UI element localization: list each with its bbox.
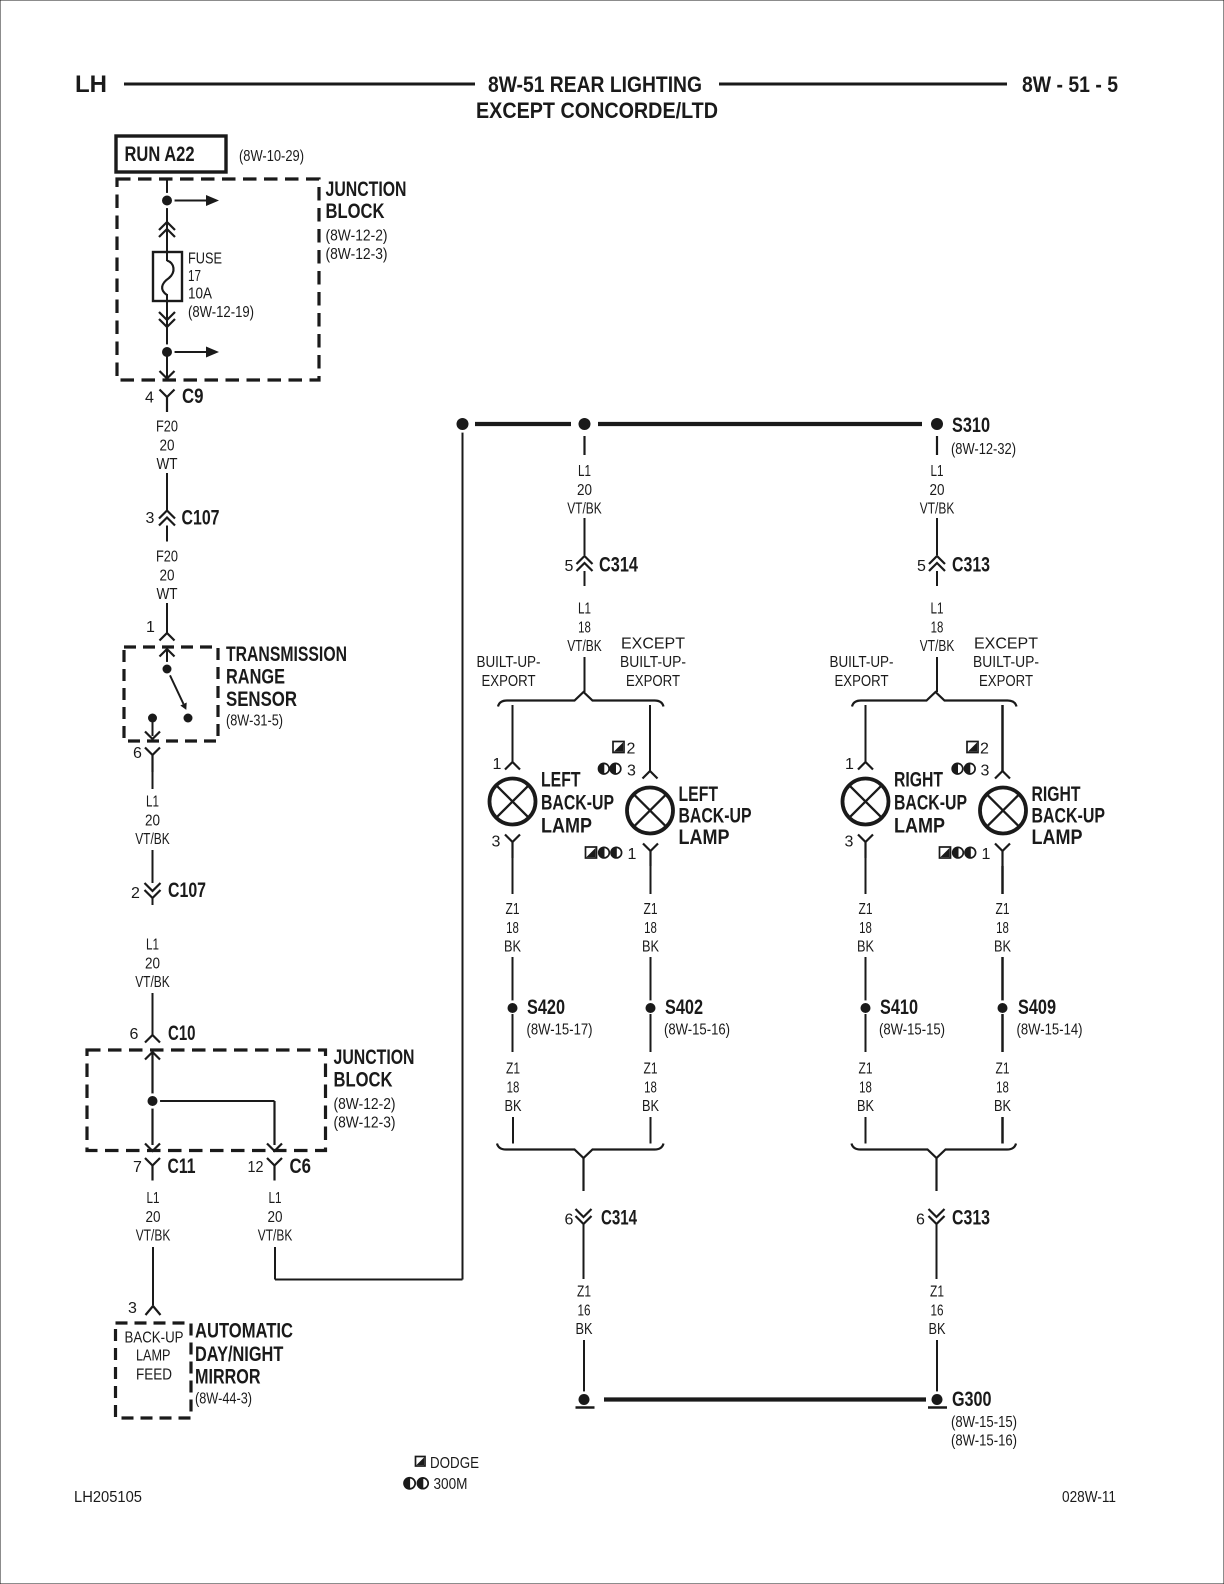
wire to C314 xyxy=(584,518,586,555)
svg-text:VT/BK: VT/BK xyxy=(136,1228,171,1245)
svg-text:Z1: Z1 xyxy=(859,1061,873,1078)
svg-text:BLOCK: BLOCK xyxy=(326,200,385,223)
svg-text:BLOCK: BLOCK xyxy=(334,1069,393,1092)
svg-text:RIGHT: RIGHT xyxy=(894,769,943,792)
marker row pin 1 xyxy=(586,847,597,858)
wire bus to L1 label middle xyxy=(583,436,585,455)
wire brace to C314 pin 6 xyxy=(582,1158,584,1191)
svg-text:FEED: FEED xyxy=(136,1367,172,1384)
header rule left xyxy=(124,83,475,86)
lamp 2 pin right xyxy=(995,771,1010,779)
switch arm xyxy=(167,669,184,704)
svg-text:RIGHT: RIGHT xyxy=(1032,783,1081,806)
wire C313 to Z1 label xyxy=(936,1232,938,1279)
svg-text:Z1: Z1 xyxy=(506,901,520,918)
svg-text:S310: S310 xyxy=(952,414,990,437)
svg-text:BK: BK xyxy=(576,1321,593,1338)
svg-text:SENSOR: SENSOR xyxy=(226,688,297,711)
svg-text:WT: WT xyxy=(157,456,178,473)
svg-text:3: 3 xyxy=(981,763,990,780)
svg-text:3: 3 xyxy=(128,1300,137,1317)
junction block 1 dashed outline xyxy=(117,179,319,380)
automatic day/night mirror dashed outline xyxy=(116,1323,192,1418)
wire C9 to C107 xyxy=(166,473,168,510)
junction block 2 main wire xyxy=(151,1052,153,1145)
bus node S310 xyxy=(928,415,945,432)
wire into bottom brace right 2 xyxy=(1001,1117,1004,1144)
svg-text:EXCEPT CONCORDE/LTD: EXCEPT CONCORDE/LTD xyxy=(476,98,718,123)
svg-text:1: 1 xyxy=(493,756,502,773)
svg-text:12: 12 xyxy=(248,1159,264,1176)
svg-text:BUILT-UP-: BUILT-UP- xyxy=(973,654,1039,671)
left back-up lamp (except built-up-export) xyxy=(627,788,673,834)
svg-text:18: 18 xyxy=(931,619,944,636)
switch contact node left xyxy=(145,711,159,725)
wire into brace left xyxy=(584,657,586,692)
svg-text:LEFT: LEFT xyxy=(679,783,719,806)
svg-text:C11: C11 xyxy=(168,1155,196,1178)
svg-text:AUTOMATIC: AUTOMATIC xyxy=(195,1320,293,1343)
svg-text:18: 18 xyxy=(996,1079,1009,1096)
merge brace right pair xyxy=(852,1144,1017,1159)
svg-text:VT/BK: VT/BK xyxy=(567,501,602,518)
svg-text:(8W-44-3): (8W-44-3) xyxy=(195,1391,252,1408)
svg-text:(8W-10-29): (8W-10-29) xyxy=(239,148,304,165)
svg-text:(8W-15-15): (8W-15-15) xyxy=(951,1414,1017,1431)
merge brace left pair xyxy=(497,1144,664,1159)
svg-text:JUNCTION: JUNCTION xyxy=(334,1046,415,1069)
svg-text:18: 18 xyxy=(859,920,872,937)
svg-text:8W-51 REAR LIGHTING: 8W-51 REAR LIGHTING xyxy=(488,72,702,97)
sensor exit wire xyxy=(152,718,154,736)
wire to ground G300 left xyxy=(583,1340,585,1394)
wire to left back-up lamp pin 1 xyxy=(512,705,514,762)
wire C11 to mirror xyxy=(152,1247,154,1305)
svg-text:LH205105: LH205105 xyxy=(74,1489,142,1506)
connector double chevron below fuse xyxy=(159,312,175,320)
svg-text:BUILT-UP-: BUILT-UP- xyxy=(477,654,541,671)
svg-text:L1: L1 xyxy=(931,463,944,480)
svg-text:LAMP: LAMP xyxy=(1032,826,1083,849)
svg-text:DODGE: DODGE xyxy=(430,1455,479,1472)
svg-text:2: 2 xyxy=(627,741,636,758)
svg-text:VT/BK: VT/BK xyxy=(135,974,170,991)
svg-text:6: 6 xyxy=(130,1026,139,1043)
svg-text:JUNCTION: JUNCTION xyxy=(326,178,407,201)
svg-text:WT: WT xyxy=(157,586,178,603)
svg-text:BACK-UP: BACK-UP xyxy=(894,792,967,815)
branch arrow lower xyxy=(167,351,207,353)
wire to right back-up lamp pin 1 xyxy=(865,705,867,762)
wire to block exit xyxy=(166,352,168,377)
svg-text:L1: L1 xyxy=(578,601,591,618)
wire into bottom brace right xyxy=(865,1117,867,1144)
svg-text:C314: C314 xyxy=(601,1207,637,1230)
svg-text:(8W-12-2): (8W-12-2) xyxy=(326,228,388,245)
svg-text:2: 2 xyxy=(131,885,140,902)
svg-text:BACK-UP: BACK-UP xyxy=(541,792,614,815)
svg-text:LAMP: LAMP xyxy=(679,826,730,849)
svg-text:(8W-31-5): (8W-31-5) xyxy=(226,713,283,730)
svg-text:LH: LH xyxy=(75,71,107,98)
svg-text:L1: L1 xyxy=(147,1190,160,1207)
wire to splice S420 xyxy=(512,957,514,1002)
junction block 2 entry arrow xyxy=(145,1052,160,1060)
svg-text:C107: C107 xyxy=(168,879,206,902)
legend 300m marker xyxy=(404,1478,415,1489)
header rule right xyxy=(719,83,1007,86)
svg-text:18: 18 xyxy=(644,920,657,937)
junction node upper xyxy=(159,193,174,208)
svg-text:LAMP: LAMP xyxy=(894,815,945,838)
junction block 2 exit arrow left xyxy=(145,1144,160,1152)
wire lamp 2 down xyxy=(650,866,652,894)
svg-text:(8W-12-2): (8W-12-2) xyxy=(334,1096,396,1113)
lamp 2 pin xyxy=(643,771,658,779)
svg-text:16: 16 xyxy=(578,1302,591,1319)
svg-text:20: 20 xyxy=(160,567,175,584)
svg-text:18: 18 xyxy=(578,619,591,636)
svg-text:L1: L1 xyxy=(931,601,944,618)
svg-text:(8W-15-14): (8W-15-14) xyxy=(1017,1022,1083,1039)
svg-text:16: 16 xyxy=(931,1302,944,1319)
svg-text:C313: C313 xyxy=(952,554,990,577)
svg-text:BK: BK xyxy=(642,1098,659,1115)
svg-text:LAMP: LAMP xyxy=(541,815,592,838)
svg-text:1: 1 xyxy=(845,756,854,773)
branch brace right pair xyxy=(852,692,1017,707)
wire brace to C313 pin 6 xyxy=(935,1158,937,1191)
wire to splice S410 xyxy=(865,957,867,1002)
svg-text:7: 7 xyxy=(133,1159,142,1176)
wire C6 run to riser xyxy=(275,1279,463,1281)
splice S420 node xyxy=(505,1000,520,1015)
svg-text:EXPORT: EXPORT xyxy=(835,673,889,690)
wire to right back-up lamp 2 xyxy=(1001,705,1004,771)
svg-text:Z1: Z1 xyxy=(577,1284,591,1301)
svg-text:(8W-12-32): (8W-12-32) xyxy=(951,441,1016,458)
svg-text:BK: BK xyxy=(994,1098,1011,1115)
marker row pin 1 right xyxy=(940,847,951,858)
bus node middle xyxy=(576,415,593,432)
svg-text:LEFT: LEFT xyxy=(541,769,581,792)
svg-text:BACK-UP: BACK-UP xyxy=(1032,805,1106,828)
svg-text:20: 20 xyxy=(146,1209,161,1226)
svg-text:18: 18 xyxy=(506,920,519,937)
svg-text:L1: L1 xyxy=(269,1190,282,1207)
transmission range sensor dashed outline xyxy=(124,647,218,741)
svg-text:VT/BK: VT/BK xyxy=(135,831,170,848)
wire bus to L1 label right xyxy=(936,436,938,455)
svg-text:EXCEPT: EXCEPT xyxy=(974,635,1038,652)
svg-text:EXPORT: EXPORT xyxy=(482,673,536,690)
svg-text:BACK-UP: BACK-UP xyxy=(679,805,752,828)
svg-text:Z1: Z1 xyxy=(859,901,873,918)
svg-text:3: 3 xyxy=(845,834,854,851)
svg-text:20: 20 xyxy=(268,1209,283,1226)
svg-text:G300: G300 xyxy=(952,1388,992,1411)
svg-text:18: 18 xyxy=(996,920,1009,937)
wire to C107 pin 2 xyxy=(152,850,154,883)
ground bus xyxy=(604,1397,926,1401)
svg-text:FUSE: FUSE xyxy=(188,251,222,268)
svg-text:(8W-12-3): (8W-12-3) xyxy=(326,246,388,263)
svg-text:VT/BK: VT/BK xyxy=(567,638,602,655)
svg-text:(8W-15-17): (8W-15-17) xyxy=(527,1022,593,1039)
exit arrow down xyxy=(160,371,175,379)
svg-text:6: 6 xyxy=(916,1212,925,1229)
lamp 2 pin 1 lower xyxy=(643,844,658,852)
svg-text:BUILT-UP-: BUILT-UP- xyxy=(830,654,894,671)
svg-text:6: 6 xyxy=(133,745,142,762)
svg-text:BK: BK xyxy=(505,1098,522,1115)
svg-text:5: 5 xyxy=(917,558,926,575)
svg-text:(8W-15-16): (8W-15-16) xyxy=(951,1433,1017,1450)
svg-text:028W-11: 028W-11 xyxy=(1062,1489,1116,1506)
svg-text:8W - 51 - 5: 8W - 51 - 5 xyxy=(1022,72,1118,97)
svg-text:18: 18 xyxy=(507,1079,520,1096)
fuse 17 10A body xyxy=(153,252,182,301)
branch brace left pair xyxy=(498,692,664,707)
svg-text:(8W-12-19): (8W-12-19) xyxy=(188,304,254,321)
svg-text:LAMP: LAMP xyxy=(136,1348,171,1365)
wire from RUN A22 into junction block xyxy=(166,179,168,200)
wire below S409 xyxy=(1001,1014,1004,1052)
svg-text:20: 20 xyxy=(145,812,160,829)
junction node lower xyxy=(159,344,174,359)
svg-text:BACK-UP: BACK-UP xyxy=(125,1330,184,1347)
svg-text:1: 1 xyxy=(982,846,991,863)
svg-text:VT/BK: VT/BK xyxy=(920,638,955,655)
svg-text:Z1: Z1 xyxy=(644,901,658,918)
svg-text:F20: F20 xyxy=(156,549,178,566)
splice S410 node xyxy=(858,1000,873,1015)
right back-up lamp (built-up-export) xyxy=(843,779,889,825)
svg-text:17: 17 xyxy=(188,268,201,285)
ground node G300 xyxy=(929,1391,945,1407)
wire riser to splice bus xyxy=(462,424,464,1280)
svg-text:S402: S402 xyxy=(665,996,703,1019)
svg-text:BUILT-UP-: BUILT-UP- xyxy=(620,654,686,671)
svg-text:3: 3 xyxy=(627,763,636,780)
svg-text:BK: BK xyxy=(857,939,874,956)
svg-text:Z1: Z1 xyxy=(930,1284,944,1301)
splice bus S310 xyxy=(475,422,571,426)
svg-text:RUN A22: RUN A22 xyxy=(125,143,195,166)
svg-text:C313: C313 xyxy=(952,1207,990,1230)
wire below S410 xyxy=(865,1014,867,1052)
svg-text:F20: F20 xyxy=(156,419,178,436)
svg-text:18: 18 xyxy=(859,1079,872,1096)
svg-text:Z1: Z1 xyxy=(506,1061,520,1078)
wire into brace right xyxy=(936,657,938,692)
marker dodge pin 2 xyxy=(613,742,624,753)
svg-text:S409: S409 xyxy=(1018,996,1056,1019)
ground node left xyxy=(576,1391,592,1407)
svg-text:EXPORT: EXPORT xyxy=(626,673,680,690)
svg-text:3: 3 xyxy=(492,834,501,851)
svg-text:TRANSMISSION: TRANSMISSION xyxy=(226,643,347,666)
wire C107 to transmission range sensor xyxy=(166,603,168,633)
wire to splice S409 xyxy=(1001,957,1004,1002)
svg-text:BK: BK xyxy=(994,939,1011,956)
svg-text:(8W-15-16): (8W-15-16) xyxy=(664,1022,730,1039)
svg-text:18: 18 xyxy=(644,1079,657,1096)
svg-text:BK: BK xyxy=(857,1098,874,1115)
junction block 2 branch wire xyxy=(153,1100,275,1102)
svg-text:RANGE: RANGE xyxy=(226,666,285,689)
svg-text:BK: BK xyxy=(642,939,659,956)
svg-text:2: 2 xyxy=(980,741,989,758)
svg-text:C107: C107 xyxy=(182,507,220,530)
wire junction dot to fuse xyxy=(166,200,168,261)
svg-text:MIRROR: MIRROR xyxy=(195,1366,261,1389)
splice S409 node xyxy=(995,1000,1010,1015)
wire lamp to Z1 right xyxy=(865,858,867,894)
svg-text:6: 6 xyxy=(565,1212,574,1229)
svg-text:5: 5 xyxy=(565,558,574,575)
bus node left xyxy=(454,415,471,432)
svg-text:L1: L1 xyxy=(578,463,591,480)
svg-text:1: 1 xyxy=(146,619,155,636)
wire C314 to Z1 label xyxy=(583,1232,585,1279)
wire to splice S402 xyxy=(650,957,652,1002)
svg-text:C6: C6 xyxy=(290,1155,312,1178)
right back-up lamp (except built-up-export) xyxy=(980,788,1026,834)
svg-text:Z1: Z1 xyxy=(996,901,1010,918)
svg-text:4: 4 xyxy=(145,390,154,407)
svg-text:BK: BK xyxy=(929,1321,946,1338)
svg-text:20: 20 xyxy=(145,955,160,972)
svg-text:20: 20 xyxy=(577,482,592,499)
svg-text:VT/BK: VT/BK xyxy=(258,1228,293,1245)
node RUN A22 feed box xyxy=(116,136,226,172)
marker dodge pin 2 right xyxy=(967,742,978,753)
wire below S420 xyxy=(512,1014,514,1052)
switch contact node right xyxy=(181,711,195,725)
svg-text:S420: S420 xyxy=(527,996,565,1019)
wire to C313 xyxy=(936,518,938,555)
svg-text:EXCEPT: EXCEPT xyxy=(621,635,685,652)
marker 300m pin 3 xyxy=(599,763,610,774)
wire to left back-up lamp 2 xyxy=(649,705,651,771)
wire C6 down xyxy=(274,1247,276,1280)
svg-text:10A: 10A xyxy=(188,286,212,303)
junction block 2 dashed outline xyxy=(87,1050,326,1151)
wire below sensor xyxy=(152,772,154,789)
svg-text:DAY/NIGHT: DAY/NIGHT xyxy=(195,1343,283,1366)
wire into bottom brace 2 xyxy=(650,1117,652,1144)
svg-text:Z1: Z1 xyxy=(644,1061,658,1078)
lamp 2 pin 1 lower right xyxy=(995,844,1010,852)
svg-text:Z1: Z1 xyxy=(996,1061,1010,1078)
wire to ground G300 xyxy=(936,1340,938,1394)
branch arrow upper xyxy=(167,200,207,202)
wire below S402 xyxy=(650,1014,652,1052)
svg-text:C314: C314 xyxy=(599,554,638,577)
wire lamp to Z1 label xyxy=(512,858,514,894)
svg-text:C10: C10 xyxy=(168,1022,196,1045)
wire lamp 2 down right xyxy=(1001,866,1004,894)
svg-text:C9: C9 xyxy=(182,385,204,408)
wire below fuse xyxy=(166,294,168,352)
legend dodge marker xyxy=(416,1457,426,1467)
svg-text:(8W-15-15): (8W-15-15) xyxy=(879,1022,945,1039)
svg-text:(8W-12-3): (8W-12-3) xyxy=(334,1115,396,1132)
svg-text:L1: L1 xyxy=(146,937,159,954)
svg-text:20: 20 xyxy=(160,437,175,454)
svg-text:1: 1 xyxy=(628,846,637,863)
marker 300m pin 3 right xyxy=(952,763,963,774)
sensor entry arrow xyxy=(160,649,175,657)
connector double chevron above fuse xyxy=(159,222,175,230)
svg-text:L1: L1 xyxy=(146,794,159,811)
wire to C10 xyxy=(152,993,154,1035)
svg-text:VT/BK: VT/BK xyxy=(920,501,955,518)
splice S402 node xyxy=(643,1000,658,1015)
svg-text:EXPORT: EXPORT xyxy=(979,673,1033,690)
svg-text:20: 20 xyxy=(930,482,945,499)
left back-up lamp (built-up-export) xyxy=(490,779,536,825)
svg-text:300M: 300M xyxy=(434,1476,468,1493)
svg-text:BK: BK xyxy=(504,939,521,956)
svg-text:3: 3 xyxy=(146,510,155,527)
wire into bottom brace xyxy=(512,1117,514,1144)
junction block 2 exit arrow right xyxy=(267,1144,282,1152)
svg-text:S410: S410 xyxy=(880,996,918,1019)
junction block 2 branch node xyxy=(145,1093,160,1108)
